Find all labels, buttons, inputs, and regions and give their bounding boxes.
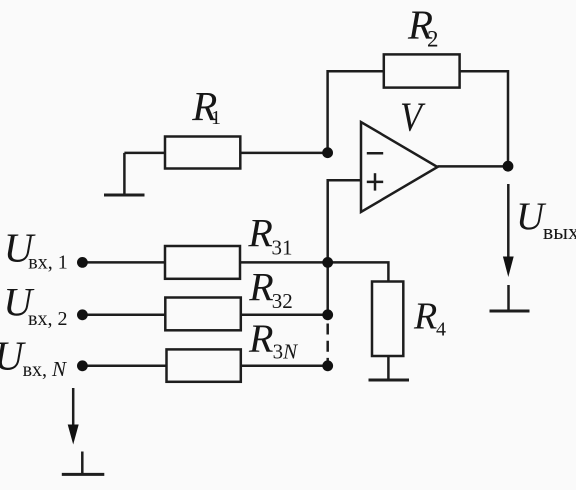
svg-text:вх, 2: вх, 2 [28,308,67,330]
svg-text:вх, 1: вх, 1 [28,252,67,274]
svg-text:31: 31 [272,236,293,260]
svg-text:32: 32 [272,289,293,313]
svg-text:R: R [248,264,273,309]
svg-text:4: 4 [436,319,446,341]
svg-text:вых: вых [543,219,576,244]
svg-text:3N: 3N [273,339,299,363]
svg-text:вх, N: вх, N [23,357,67,381]
svg-text:1: 1 [211,107,221,129]
svg-text:V: V [400,93,425,139]
svg-text:2: 2 [427,27,439,52]
svg-text:R: R [247,210,272,255]
svg-text:R: R [248,316,273,361]
svg-text:R: R [413,296,437,338]
